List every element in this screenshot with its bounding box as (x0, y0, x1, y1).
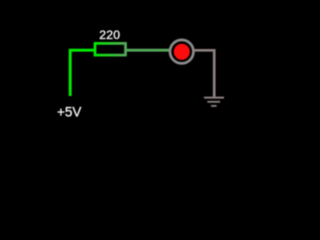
wire +5V vertical and horizontal from source to resistor (70, 50, 94, 96)
wire resistor to LED anode (126, 49, 171, 52)
ground symbol (204, 98, 224, 106)
svg-text:220: 220 (99, 28, 120, 42)
node label +5V (57, 105, 81, 120)
value label 220 (99, 28, 120, 42)
wire LED cathode to ground (194, 50, 215, 96)
svg-text:+5V: +5V (57, 105, 81, 120)
LED D1 lit red body (174, 44, 190, 60)
resistor 220 body (95, 43, 126, 55)
LED D1 ring (170, 40, 194, 64)
